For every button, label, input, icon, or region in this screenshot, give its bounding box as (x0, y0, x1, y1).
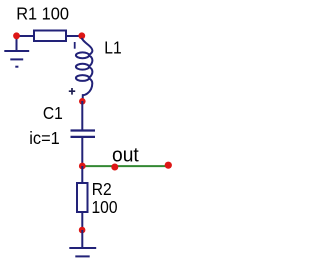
svg-text:L1: L1 (104, 39, 121, 58)
svg-text:100: 100 (92, 198, 118, 217)
wire: C1 to out junction (81, 137, 83, 166)
svg-text:C1: C1 (43, 104, 63, 123)
resistor R1 (34, 31, 66, 42)
wire: R2 to bottom node (81, 212, 83, 230)
wire: out junction to R2 (81, 166, 83, 183)
inductor L1 coil (76, 38, 93, 99)
svg-text:R1 100: R1 100 (16, 4, 69, 23)
wire: ground stub below left junction (16, 36, 18, 51)
node F (out right end dot) (165, 162, 172, 169)
node D (out junction dot) (79, 163, 86, 170)
ground (bottom) (69, 248, 96, 256)
svg-text:R2: R2 (92, 180, 112, 199)
node G (bottom dot) (79, 227, 86, 234)
resistor R2 (77, 183, 88, 212)
svg-text:ic=1: ic=1 (29, 129, 59, 148)
wire: R1 right terminal to top node (66, 35, 82, 37)
node C (L1 bottom dot) (79, 98, 86, 105)
wire: left junction to R1 left terminal (17, 35, 35, 37)
inductor L1 minus marker (74, 42, 76, 49)
wire: bottom ground stub (81, 230, 83, 248)
capacitor C1 (71, 131, 96, 137)
inductor L1 plus marker (69, 88, 75, 95)
node E (out middle dot) (111, 164, 118, 171)
ground (top-left) (4, 51, 29, 67)
svg-text:out: out (112, 144, 139, 167)
wire: out net (green) (82, 165, 168, 167)
wire: L1 to C1 (81, 101, 83, 130)
node B (R1/L1 junction dot) (78, 32, 85, 39)
node A (top-left junction dot) (13, 32, 20, 39)
